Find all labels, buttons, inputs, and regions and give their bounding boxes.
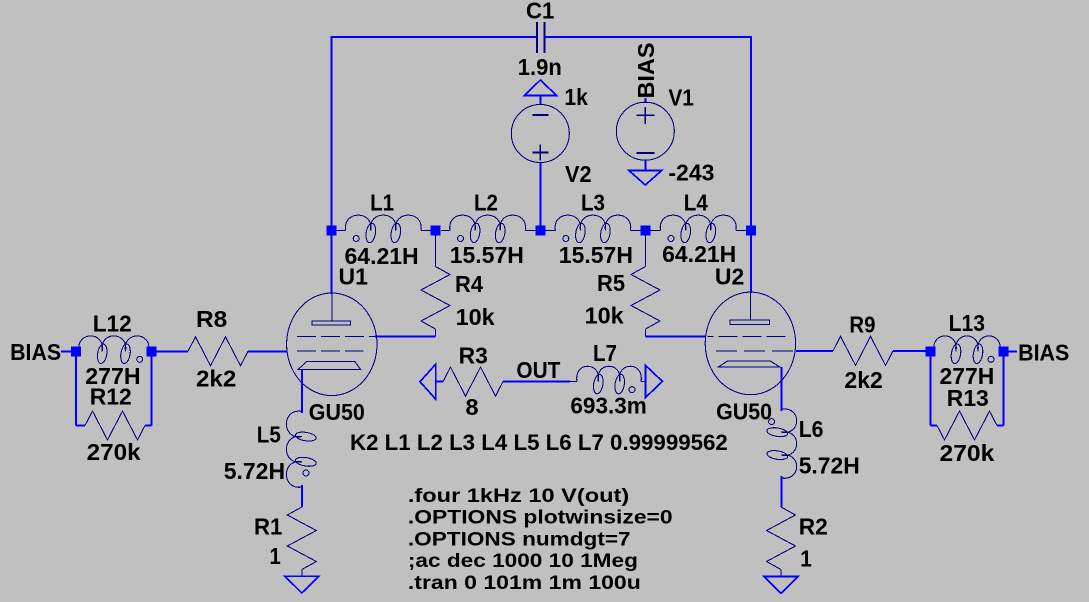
ground below R1: [285, 576, 319, 593]
svg-text:2k2: 2k2: [844, 367, 882, 393]
junction node L4/rail-right: [746, 226, 756, 236]
value 693.3m (L7): [570, 393, 646, 419]
wire L6 to R2: [780, 476, 782, 507]
junction node L1/L2/R4: [431, 226, 441, 236]
resistor R8: [157, 337, 288, 366]
svg-text:L6: L6: [799, 416, 824, 442]
svg-text:2k2: 2k2: [196, 366, 236, 392]
inductor L7: [570, 366, 645, 394]
inductor L4: [651, 215, 747, 243]
net label BIAS right: [1008, 339, 1069, 365]
junction node rail-left/L1: [327, 226, 337, 236]
resistor R13: [937, 411, 997, 440]
junction node BIAS-left/L12: [71, 346, 81, 356]
label GU50 (U2): [716, 398, 772, 424]
tube U1 screen grid (dashed): [297, 335, 375, 337]
svg-text:R9: R9: [849, 312, 875, 338]
tube U1 cathode: [298, 361, 361, 369]
svg-text:;ac dec 1000 10 1Meg: ;ac dec 1000 10 1Meg: [408, 551, 638, 572]
wire U2 grid to R9: [796, 350, 833, 352]
svg-text:5.72H: 5.72H: [224, 458, 285, 484]
wire R9 to L13: [893, 350, 926, 352]
label L1: [370, 190, 394, 216]
svg-text:1: 1: [800, 546, 812, 572]
label U1: [339, 264, 369, 290]
svg-text:U2: U2: [715, 264, 744, 290]
wire U1 cathode to L5: [301, 370, 303, 413]
voltage source V1: [616, 102, 674, 160]
svg-text:V1: V1: [668, 84, 694, 110]
value 15.57H (L2): [450, 242, 524, 268]
svg-text:L2: L2: [474, 190, 498, 216]
label L13: [949, 310, 985, 336]
net label BIAS left: [10, 339, 71, 365]
svg-text:GU50: GU50: [716, 398, 772, 424]
svg-text:L4: L4: [684, 190, 708, 216]
tube U2 screen grid (dashed): [708, 335, 786, 337]
label R3: [459, 342, 488, 368]
svg-text:L13: L13: [949, 310, 985, 336]
svg-text:U1: U1: [339, 264, 369, 290]
resistor R3: [443, 367, 503, 396]
ground below V1: [629, 160, 662, 185]
tube U2 control grid (dashed): [716, 350, 796, 352]
value 270k (R13): [940, 440, 995, 466]
inductor L13: [934, 336, 1001, 364]
label R5: [597, 270, 625, 296]
svg-text:5.72H: 5.72H: [799, 452, 860, 478]
svg-text:-243: -243: [668, 160, 714, 186]
value 2k2 (R9): [844, 367, 882, 393]
value 5.72H (L6): [799, 452, 860, 478]
wire left drop from rail to U1 anode: [331, 36, 333, 294]
tube U2 anode: [730, 293, 770, 324]
label L3: [581, 190, 605, 216]
value 64.21H: [345, 243, 419, 269]
label C1: [526, 0, 554, 23]
junction node L12/R8: [147, 346, 157, 356]
label L5: [257, 422, 281, 448]
value 10k (R4): [456, 304, 495, 330]
label R12: [90, 384, 132, 410]
value 1 (R2): [800, 546, 812, 572]
tube U2 cathode: [719, 361, 780, 367]
svg-text:OUT: OUT: [516, 357, 560, 383]
svg-text:R4: R4: [455, 271, 483, 297]
label L6: [799, 416, 824, 442]
ground flag (pointing up) above V2: [525, 80, 557, 105]
svg-text:270k: 270k: [87, 439, 141, 465]
voltage source V2: [511, 105, 569, 163]
inductor L1: [337, 215, 431, 243]
value -243: [668, 160, 714, 186]
net label BIAS at V1: [633, 43, 659, 104]
wire U1 screen to R4: [375, 335, 436, 337]
tube U1 anode: [312, 294, 351, 325]
wire V2 to node: [539, 162, 541, 231]
resistor R9: [833, 336, 893, 365]
svg-text:K2 L1 L2 L3 L4 L5 L6 L7 0.9999: K2 L1 L2 L3 L4 L5 L6 L7 0.99999562: [350, 430, 728, 455]
spice directives text block: [408, 486, 673, 594]
svg-text:1k: 1k: [564, 84, 588, 110]
svg-text:BIAS: BIAS: [10, 339, 61, 365]
value 1k: [564, 84, 588, 110]
ground flag (pointing right) at L7: [645, 365, 662, 397]
wire U2 cathode to L6: [780, 367, 782, 411]
inductor L2: [441, 215, 536, 243]
value 10k (R5): [585, 303, 624, 329]
label R2: [799, 514, 828, 540]
spice directive K2 coupling: [350, 430, 728, 455]
ground below R2: [764, 577, 798, 594]
svg-text:R13: R13: [947, 385, 989, 411]
value 1 (R1): [270, 543, 281, 569]
inductor L12: [79, 336, 149, 364]
value 277H (L13): [940, 363, 995, 389]
label L7: [593, 340, 617, 366]
svg-text:693.3m: 693.3m: [570, 393, 646, 419]
label R9: [849, 312, 875, 338]
svg-text:.OPTIONS numdgt=7: .OPTIONS numdgt=7: [408, 529, 631, 550]
svg-text:270k: 270k: [940, 440, 995, 466]
label R8: [196, 306, 228, 332]
svg-text:R1: R1: [254, 513, 282, 539]
wire right drop from rail to U2 anode: [750, 36, 752, 293]
svg-text:1.9n: 1.9n: [518, 54, 562, 80]
svg-text:1: 1: [270, 543, 281, 569]
wire L12 left leg down: [76, 351, 85, 425]
svg-text:L12: L12: [93, 310, 132, 336]
svg-text:C1: C1: [526, 0, 554, 23]
svg-text:10k: 10k: [456, 304, 495, 330]
svg-text:L3: L3: [581, 190, 605, 216]
value 277H (L12): [85, 363, 140, 389]
tube U2 envelope: [705, 292, 795, 395]
svg-text:L7: L7: [593, 340, 617, 366]
value 15.57H (L3): [559, 242, 633, 268]
resistor R5: [631, 236, 660, 337]
svg-text:BIAS: BIAS: [633, 43, 659, 99]
label V1: [668, 84, 694, 110]
wire L13 right leg down: [997, 351, 1003, 425]
inductor L6: [766, 409, 796, 478]
wire top rail right segment: [545, 36, 752, 38]
junction node L2/L3/V2: [535, 226, 545, 236]
label R13: [947, 385, 989, 411]
tube U1 control grid (dashed): [297, 350, 364, 352]
junction node R9/L13: [926, 346, 936, 356]
svg-text:R5: R5: [597, 270, 625, 296]
wire R5 to U2 screen: [646, 335, 706, 337]
svg-text:15.57H: 15.57H: [450, 242, 524, 268]
svg-text:R2: R2: [799, 514, 828, 540]
svg-text:GU50: GU50: [309, 399, 365, 425]
label L12: [93, 310, 132, 336]
label L4: [684, 190, 708, 216]
svg-text:V2: V2: [565, 161, 592, 187]
resistor R2: [767, 507, 796, 577]
value 1.9n: [518, 54, 562, 80]
capacitor C1: [537, 22, 545, 53]
svg-text:8: 8: [466, 394, 479, 420]
label GU50 (U1): [309, 399, 365, 425]
resistor R12: [85, 411, 145, 440]
label L2: [474, 190, 498, 216]
ground flag (pointing left) at R3: [420, 364, 443, 399]
svg-text:L5: L5: [257, 422, 281, 448]
svg-text:.tran 0 101m 1m 100u: .tran 0 101m 1m 100u: [408, 573, 641, 594]
svg-text:.OPTIONS plotwinsize=0: .OPTIONS plotwinsize=0: [408, 508, 673, 529]
resistor R4: [421, 236, 450, 337]
wire L12 right leg down: [145, 351, 152, 425]
junction node L13/BIAS-right: [998, 346, 1008, 356]
svg-text:L1: L1: [370, 190, 394, 216]
svg-text:15.57H: 15.57H: [559, 242, 633, 268]
inductor L5: [286, 411, 316, 487]
wire L13 left leg down: [931, 351, 937, 425]
net label OUT: [516, 357, 560, 383]
tube U1 envelope: [287, 293, 377, 396]
wire L5 to R1: [301, 485, 303, 507]
value 8 (R3): [466, 394, 479, 420]
label U2: [715, 264, 744, 290]
inductor L3: [545, 215, 640, 243]
label R1: [254, 513, 282, 539]
svg-text:R12: R12: [90, 384, 132, 410]
svg-text:R3: R3: [459, 342, 488, 368]
svg-text:BIAS: BIAS: [1018, 339, 1069, 365]
svg-text:.four 1kHz 10 V(out): .four 1kHz 10 V(out): [408, 486, 629, 507]
value 64.21H (L4): [662, 241, 736, 267]
label R4: [455, 271, 483, 297]
junction node L3/L4/R5: [641, 226, 651, 236]
resistor R1: [287, 507, 316, 576]
wire R3 to L7 (OUT net): [503, 381, 570, 383]
value 270k (R12): [87, 439, 141, 465]
label V2: [565, 161, 592, 187]
svg-text:R8: R8: [196, 306, 228, 332]
svg-text:10k: 10k: [585, 303, 624, 329]
value 2k2 (R8): [196, 366, 236, 392]
wire top rail left segment: [332, 36, 537, 38]
value 5.72H (L5): [224, 458, 285, 484]
